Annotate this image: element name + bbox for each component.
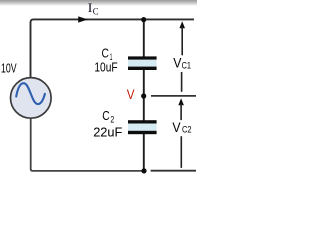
- wire: left wire below source to bottom-left corner and bottom wire to junction: [31, 118, 145, 171]
- svg-text:C: C: [102, 108, 109, 123]
- svg-text:V: V: [127, 87, 135, 102]
- svg-text:2: 2: [110, 114, 114, 124]
- svg-text:C: C: [93, 8, 99, 18]
- svg-text:C: C: [102, 45, 109, 60]
- svg-text:22uF: 22uF: [93, 125, 122, 140]
- svg-text:V: V: [172, 119, 181, 135]
- junction node at top of capacitor branch: [141, 17, 146, 22]
- svg-text:I: I: [88, 0, 93, 15]
- VC2 measure arrow (up): [178, 98, 184, 105]
- capacitor C1: [128, 58, 157, 68]
- mid reference line from node V: [151, 95, 196, 97]
- VC2 line below label: [180, 136, 182, 168]
- wire: C2 bottom to bottom junction: [143, 134, 145, 172]
- VC1 line below label: [181, 72, 183, 92]
- VC1 measure arrow (up): [179, 21, 185, 28]
- bottom-right reference line: [151, 170, 196, 172]
- wire: C1 bottom to node V: [143, 70, 145, 97]
- node V junction dot: [141, 93, 146, 98]
- header shadow gradient: [0, 0, 197, 6]
- voltage source V1 (AC): [11, 78, 52, 119]
- wire: node V to C2 top: [143, 96, 145, 122]
- svg-text:C2: C2: [182, 125, 192, 136]
- sine wave inside source: [16, 83, 45, 104]
- wire: top wire from left corner to right end: [31, 19, 195, 77]
- capacitor C2: [128, 122, 157, 132]
- current arrow IC on top wire: [78, 16, 88, 22]
- capacitor branch wire: top wire to C1: [143, 19, 145, 57]
- svg-text:10uF: 10uF: [94, 60, 117, 75]
- svg-text:10V: 10V: [1, 61, 17, 76]
- svg-text:C1: C1: [182, 60, 191, 71]
- bottom junction dot: [141, 168, 146, 173]
